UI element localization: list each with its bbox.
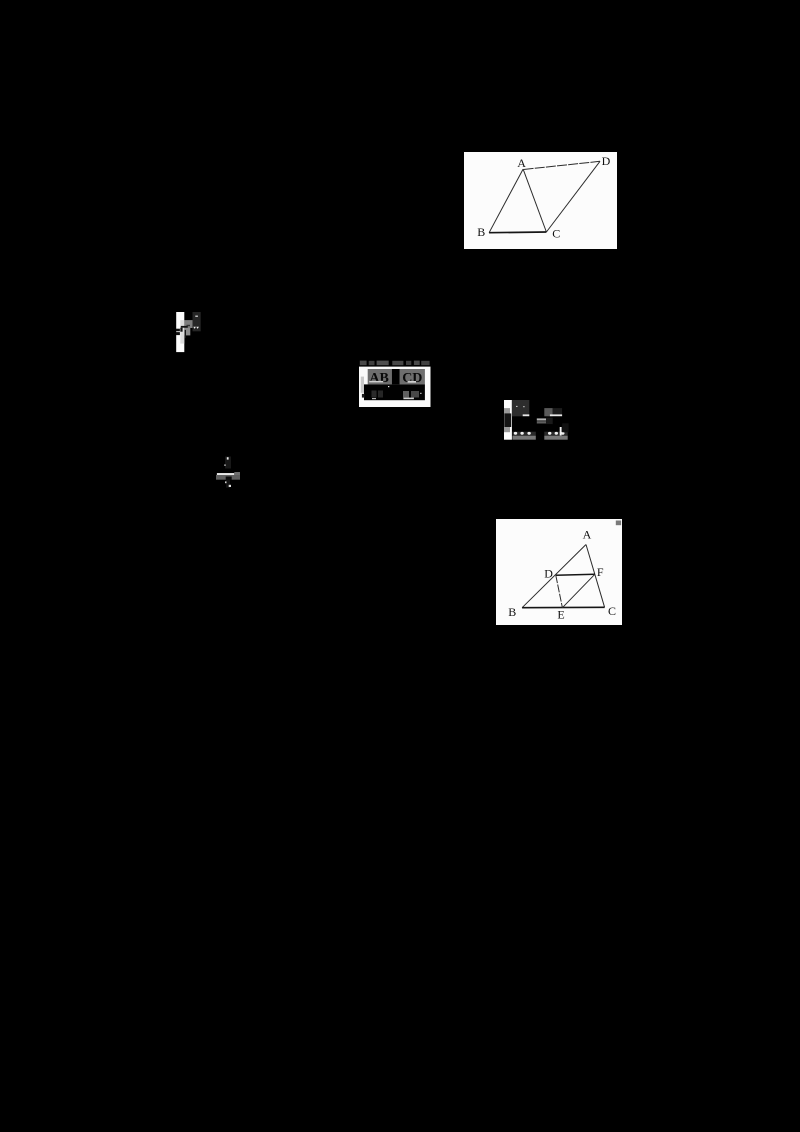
white dot <box>388 386 389 387</box>
top-left dark block <box>512 400 529 416</box>
wire BA <box>522 544 586 607</box>
wire DF <box>556 574 595 575</box>
bright vertical bar <box>559 427 561 436</box>
AB white underdash <box>369 380 383 382</box>
dark blob <box>504 413 511 427</box>
white patch <box>359 366 431 406</box>
equals light bar <box>537 418 546 420</box>
smudge dashes above <box>360 360 367 365</box>
svg-text:C: C <box>552 226 560 240</box>
figure 1 box (quadrilateral ABCD) <box>464 152 617 249</box>
svg-text:AB: AB <box>369 370 388 385</box>
equation E2 (proportion, degraded) <box>504 400 570 441</box>
wire EF <box>563 574 595 607</box>
dark block <box>192 312 200 331</box>
gray block <box>544 408 552 416</box>
faint block <box>546 418 553 424</box>
faint numeral three <box>225 457 231 469</box>
white chevrons <box>193 327 196 329</box>
svg-text:B: B <box>477 225 485 239</box>
svg-text:C: C <box>608 604 616 618</box>
white dots <box>227 457 229 459</box>
wire AD <box>523 161 599 169</box>
approx-equals bars <box>176 329 180 332</box>
CD gray block <box>400 369 425 384</box>
equals dark bar <box>537 421 546 423</box>
gray substrip <box>504 408 510 432</box>
corner gray square <box>616 520 621 525</box>
wire DC <box>546 161 600 232</box>
svg-text:D: D <box>601 154 610 168</box>
wire BC <box>522 606 605 608</box>
dark block <box>552 408 561 416</box>
black gap between blocks <box>392 369 400 384</box>
wire AB <box>489 169 523 233</box>
strip shading <box>180 320 184 344</box>
white strip <box>176 312 184 352</box>
svg-text:E: E <box>558 607 565 621</box>
wire AC <box>586 544 605 607</box>
white dots below <box>225 481 227 483</box>
white specks <box>516 406 517 407</box>
wire DE <box>556 575 563 607</box>
dark glyph right <box>562 423 568 432</box>
gray band <box>216 475 240 480</box>
figure 2 box (triangle ABC with midsegments DEF) <box>496 519 622 625</box>
left denominator glyphs <box>372 390 377 397</box>
wire BC <box>489 231 546 234</box>
white fraction bar <box>217 473 234 475</box>
bottom-right letter block <box>544 432 567 436</box>
left light strip <box>361 376 364 392</box>
white dash <box>522 414 529 416</box>
CD white underdash <box>408 381 416 383</box>
dark dot <box>362 393 365 397</box>
wire AC <box>523 169 546 232</box>
black middle band <box>364 384 425 400</box>
svg-text:CD: CD <box>402 370 422 385</box>
hook glyph <box>180 326 187 328</box>
gray block lower <box>184 328 190 335</box>
svg-text:F: F <box>597 565 604 579</box>
dark numeral <box>225 477 231 480</box>
gray notch <box>234 472 240 475</box>
svg-text:A: A <box>583 527 592 541</box>
svg-text:A: A <box>517 155 526 169</box>
fraction 3/4 (degraded) <box>216 455 241 489</box>
gray block <box>184 320 192 328</box>
svg-text:B: B <box>508 605 516 619</box>
right denominator glyphs <box>403 391 409 398</box>
AB gray block <box>368 369 392 384</box>
white dash <box>550 414 562 416</box>
white strip <box>504 400 512 440</box>
svg-text:D: D <box>544 566 553 580</box>
equation E1 (AB/CD proportion, degraded) <box>359 360 431 408</box>
white dash <box>195 315 198 316</box>
bottom-left letter block <box>512 432 535 436</box>
fragment F1 (degraded inline equation) <box>176 312 202 354</box>
faint column <box>226 480 230 488</box>
vertical dark line <box>184 330 185 338</box>
